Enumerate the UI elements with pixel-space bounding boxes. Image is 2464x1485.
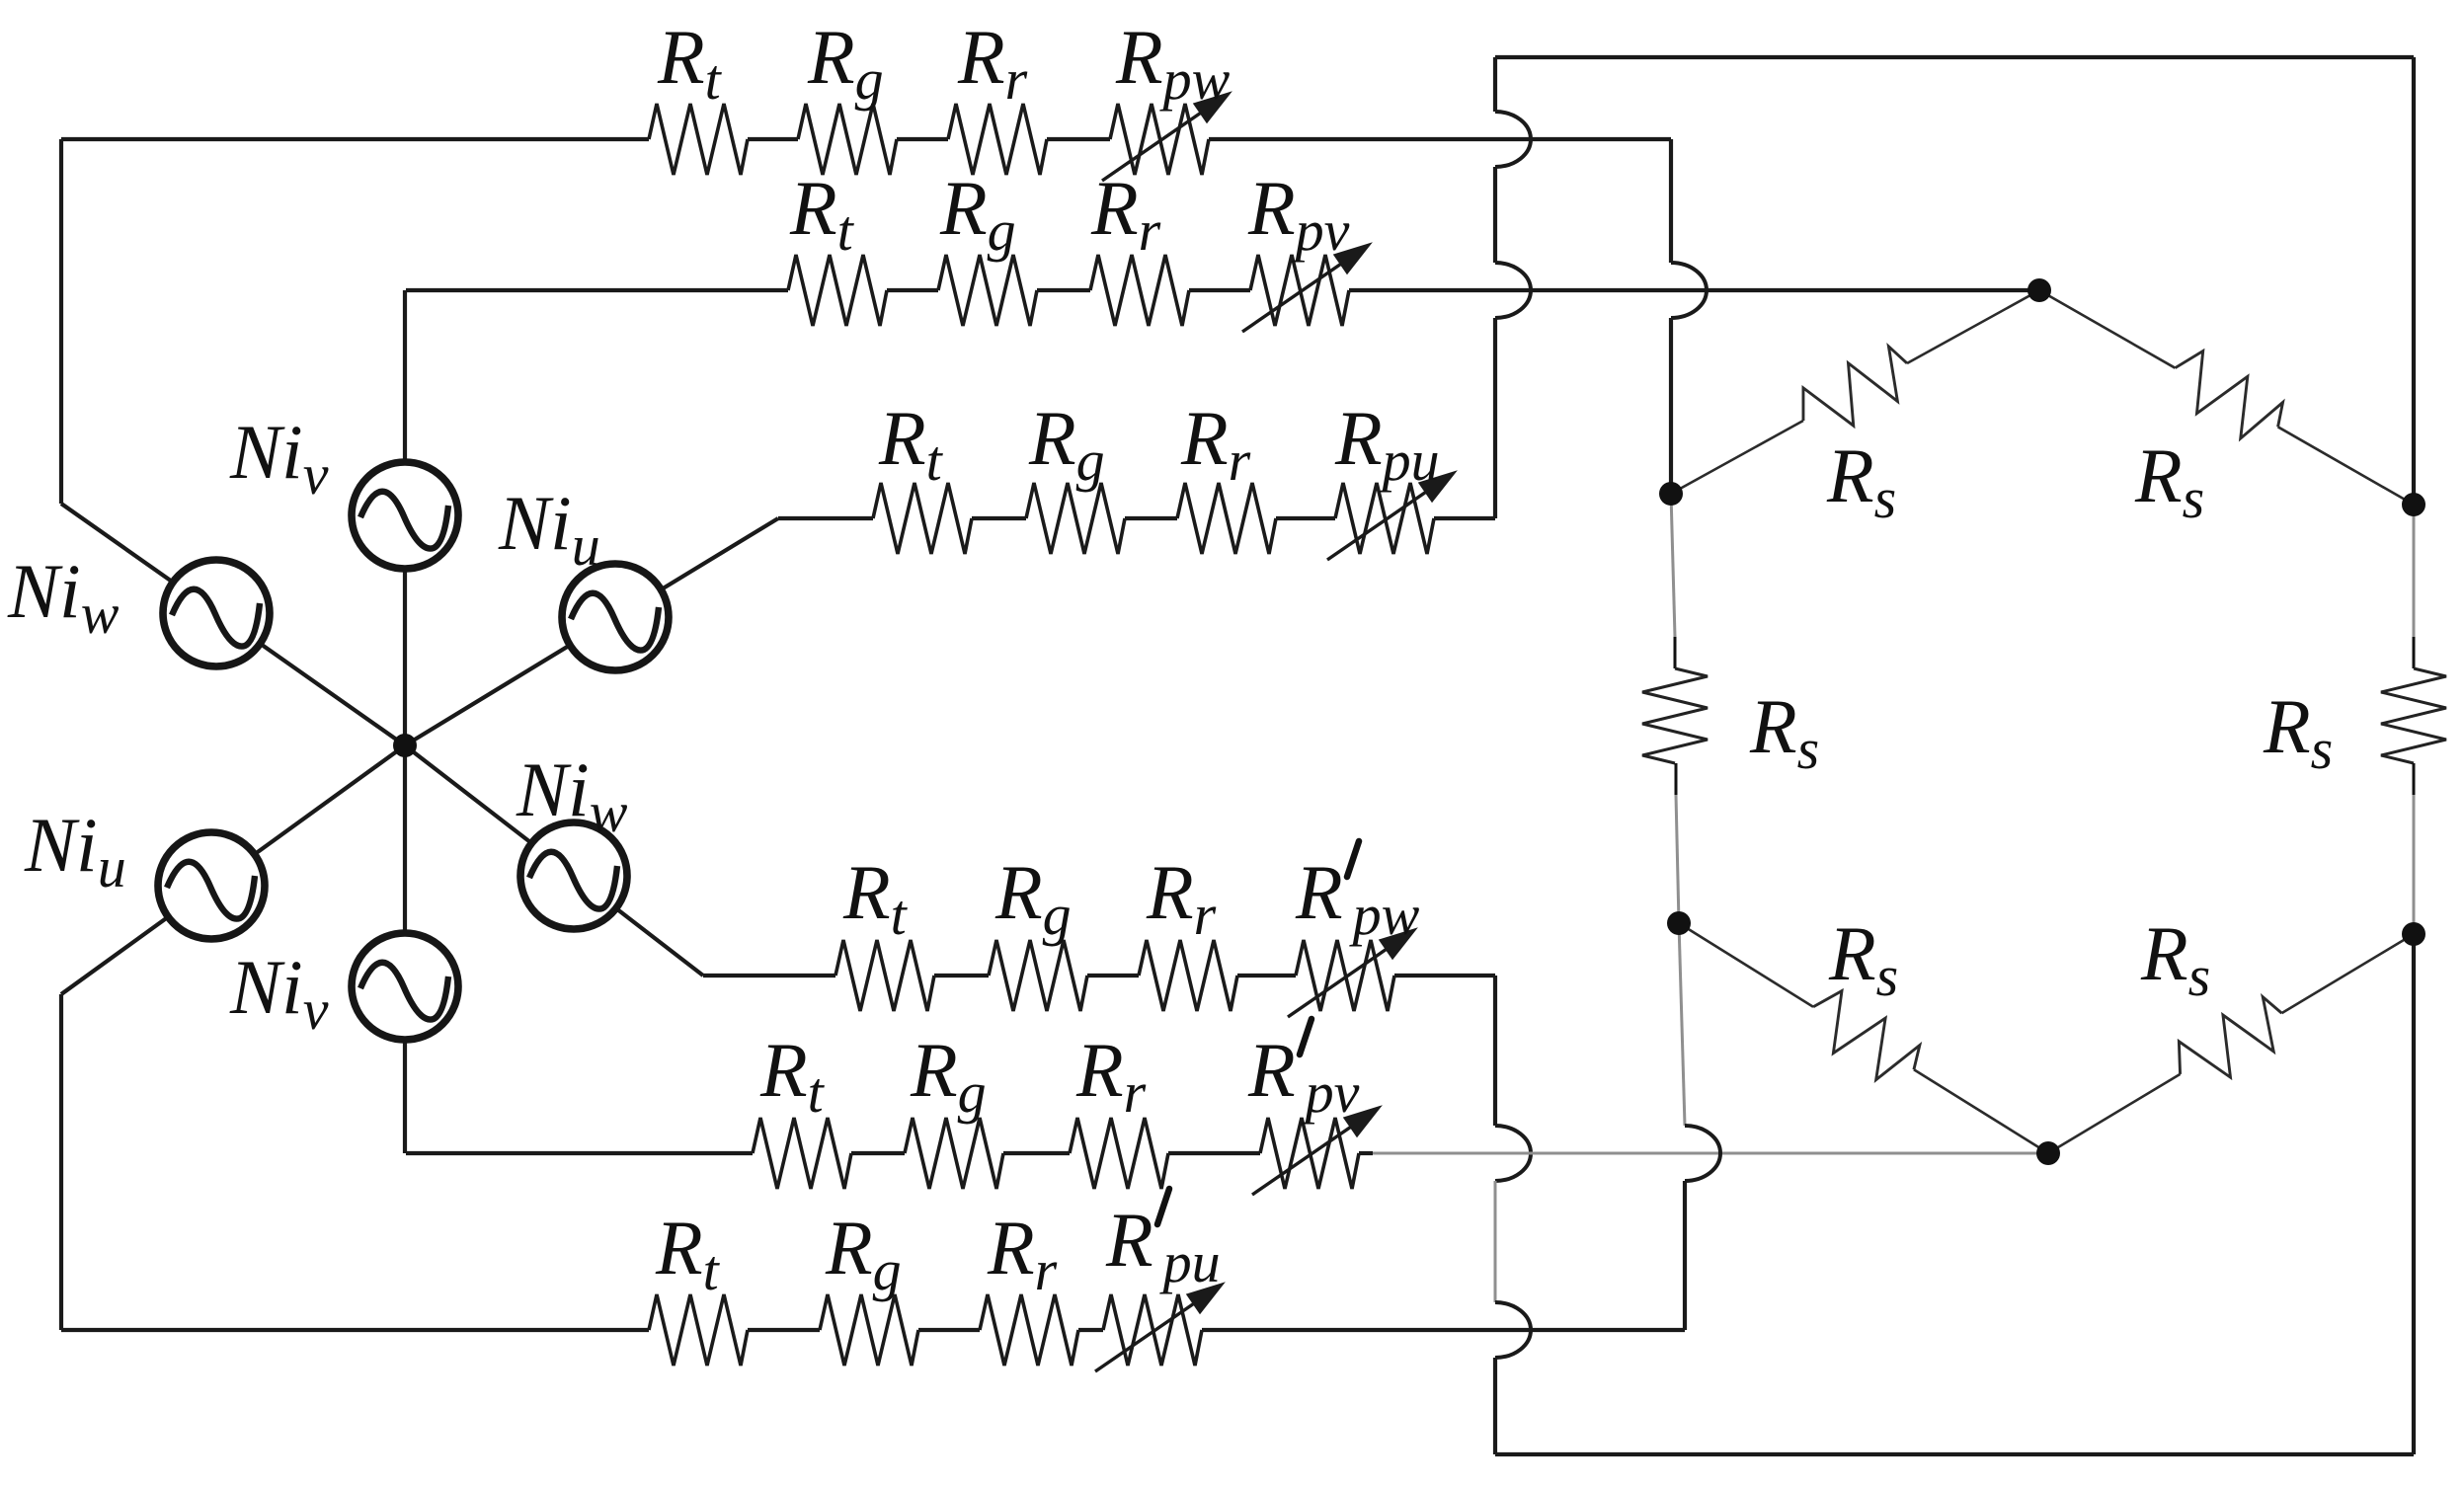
resistor Rt (row 1) [649, 104, 748, 175]
resistor Rr (row 5) [1070, 1118, 1168, 1189]
variable resistor Rpv (row 2) [1250, 255, 1349, 326]
variable resistor R'pv (row 5) [1260, 1118, 1359, 1189]
resistor Rr (row 1) [948, 104, 1047, 175]
wire diagonal to upper-left source Niw [61, 504, 405, 745]
resistor Rg (row 1) [798, 104, 897, 175]
wire row-2 segment Rt-Rg [887, 288, 938, 292]
resistor Rr (row 6) [980, 1294, 1078, 1366]
wire left bus lower segment [59, 994, 63, 1330]
wire row-1 segment Rg-Rr [897, 137, 948, 141]
hop of bus 1 over row 2 [1495, 263, 1531, 318]
node star center [393, 734, 417, 757]
hop of bus A over row 5 [1495, 1126, 1531, 1181]
wire row-3 right segment to vertical bus 1 [1434, 516, 1495, 520]
wire top rail [1495, 55, 2414, 59]
resistor Rt (row 2) [788, 255, 887, 326]
AC source Niu (upper-right) [562, 564, 669, 670]
wire row-2 right segment to hexagon top node [1349, 288, 2039, 292]
wire row-6 right segment to bus B [1202, 1328, 1685, 1332]
resistor Rs (lower-right diagonal) [2166, 988, 2297, 1098]
node hexagon lower-right [2402, 922, 2425, 946]
wire row-6 (u' phase) left segment [61, 1328, 649, 1332]
resistor Rt (row 5) [753, 1118, 851, 1189]
wire row-1 (w phase) left segment [61, 137, 649, 141]
wire diagonal to lower-right source Niw [405, 745, 703, 976]
wire hexagon left side black lead upper [1674, 637, 1677, 668]
resistor Rt (row 3) [873, 483, 972, 554]
node hexagon upper-left [1659, 482, 1683, 506]
hop of bus B over row 5 [1685, 1126, 1720, 1181]
wire row-4 right segment to bus A [1394, 974, 1495, 977]
resistor Rs (lower-left diagonal) [1798, 982, 1930, 1094]
wire row-4 (w' phase) left segment [703, 974, 835, 977]
wire right rail lower [2412, 934, 2416, 1454]
AC source Niv (lower) [352, 933, 458, 1040]
wire vertical bus 2 upper part [1669, 139, 1673, 263]
wire hexagon right side black lead upper [2413, 637, 2416, 668]
AC source Niu (lower-left) [158, 832, 265, 939]
wire vertical bus 2 lower part to hexagon node [1669, 318, 1673, 494]
wire row-4 segment Rr-R'pw [1237, 974, 1296, 977]
wire row-6 segment Rg-Rr [918, 1328, 980, 1332]
hop of bus 1 over row 1 [1495, 112, 1531, 167]
wire hexagon side from upper-right diagonal [2278, 427, 2414, 505]
wire hexagon left side black lead lower [1675, 763, 1678, 795]
variable resistor R'pu (row 6) [1103, 1294, 1202, 1366]
wire left bus upper segment [59, 139, 63, 504]
AC source Niv (upper) [352, 462, 458, 569]
wire hexagon right side black lead lower [2413, 763, 2416, 795]
wire bus A lower part [1493, 1358, 1497, 1454]
wire row-5 segment Rt-Rg [851, 1151, 905, 1155]
wire row-1 right segment to vertical bus 2 [1209, 137, 1671, 141]
wire diagonal to lower-left source Niu [61, 745, 405, 994]
resistor Rg (row 4) [989, 940, 1087, 1011]
resistor Rs (hexagon right side) [2381, 668, 2446, 763]
resistor Rs (hexagon left side) [1642, 668, 1708, 763]
wire hexagon side from upper-left diagonal [1907, 290, 2039, 363]
wire row-4 segment Rt-Rg [934, 974, 989, 977]
resistor Rt (row 4) [835, 940, 934, 1011]
variable resistor Rpw (row 1) [1110, 104, 1209, 175]
wire vertical bus 1 top [1493, 57, 1497, 112]
wire bus A upper part [1493, 976, 1497, 1126]
wire row-6 segment Rr-R'pu [1078, 1328, 1103, 1332]
wire row-2 segment Rr-Rpv [1189, 288, 1250, 292]
resistor Rg (row 6) [820, 1294, 918, 1366]
wire hexagon side from lower-left diagonal [1914, 1069, 2048, 1153]
wire hexagon side to upper-right diagonal [2039, 290, 2175, 368]
wire row-3 segment Rt-Rg [972, 516, 1026, 520]
node hexagon upper-right [2402, 493, 2425, 516]
wire vertical bus 1 from row 3 up [1493, 318, 1497, 518]
node hexagon bottom [2036, 1141, 2060, 1165]
wire row-2 segment Rg-Rr [1037, 288, 1090, 292]
resistor Rt (row 6) [649, 1294, 748, 1366]
wire v-phase vertical through sources [403, 290, 407, 745]
wire hexagon left side grey upper [1671, 494, 1675, 637]
wire row-5 (v' phase) left segment [406, 1151, 753, 1155]
node hexagon top [2027, 278, 2051, 302]
wire hexagon right side grey upper [2413, 505, 2416, 637]
wire v-phase vertical lower through source Niv [403, 745, 407, 1153]
wire bus A grey middle part [1494, 1181, 1497, 1302]
wire row-3 segment Rr-Rpu [1276, 516, 1335, 520]
variable resistor Rpu (row 3) [1335, 483, 1434, 554]
wire bus B grey upper part [1679, 923, 1685, 1126]
wire row-2 (v phase) left segment [406, 288, 788, 292]
wire bus B lower part [1683, 1181, 1687, 1330]
node hexagon lower-left [1667, 911, 1691, 935]
wire row-5 segment Rr-R'pv [1168, 1151, 1260, 1155]
wire bottom rail [1495, 1452, 2414, 1456]
resistor Rr (row 4) [1139, 940, 1237, 1011]
hop of bus A over row 6 [1495, 1302, 1531, 1358]
hop of bus 2 over row 2 [1671, 263, 1707, 318]
wire row-1 segment Rt-Rg [748, 137, 798, 141]
AC source Niw (lower-right) [520, 822, 627, 929]
AC source Niw (upper-left) [163, 560, 270, 666]
resistor Rr (row 2) [1090, 255, 1189, 326]
wire row-1 segment Rr-Rpw [1047, 137, 1110, 141]
resistor Rr (row 3) [1177, 483, 1276, 554]
resistor Rs (upper-right diagonal) [2161, 344, 2292, 452]
wire hexagon side to lower-left diagonal [1679, 923, 1813, 1007]
wire row-6 segment Rt-Rg [748, 1328, 820, 1332]
wire row-5 short black right lead [1359, 1151, 1373, 1155]
wire row-5 segment Rg-Rr [1003, 1151, 1070, 1155]
wire right rail upper [2412, 57, 2416, 505]
wire hexagon side to upper-left diagonal [1671, 421, 1803, 494]
wire diagonal to upper-right source Niu [405, 518, 778, 745]
resistor Rg (row 2) [938, 255, 1037, 326]
resistor Rg (row 3) [1026, 483, 1125, 554]
resistor Rg (row 5) [905, 1118, 1003, 1189]
wire row-5 grey segment to hexagon bottom node [1373, 1152, 2048, 1155]
wire hexagon side from lower-right diagonal [2281, 934, 2414, 1013]
variable resistor R'pw (row 4) [1296, 940, 1394, 1011]
wire vertical bus 1 middle [1493, 167, 1497, 263]
wire row-3 (u phase) left segment [778, 516, 873, 520]
wire row-3 segment Rg-Rr [1125, 516, 1177, 520]
wire row-4 segment Rg-Rr [1087, 974, 1139, 977]
resistor Rs (upper-left diagonal) [1789, 339, 1921, 446]
wire hexagon left side grey lower [1676, 795, 1679, 923]
wire hexagon side to lower-right diagonal [2048, 1074, 2181, 1153]
wire hexagon right side grey lower [2413, 795, 2416, 934]
